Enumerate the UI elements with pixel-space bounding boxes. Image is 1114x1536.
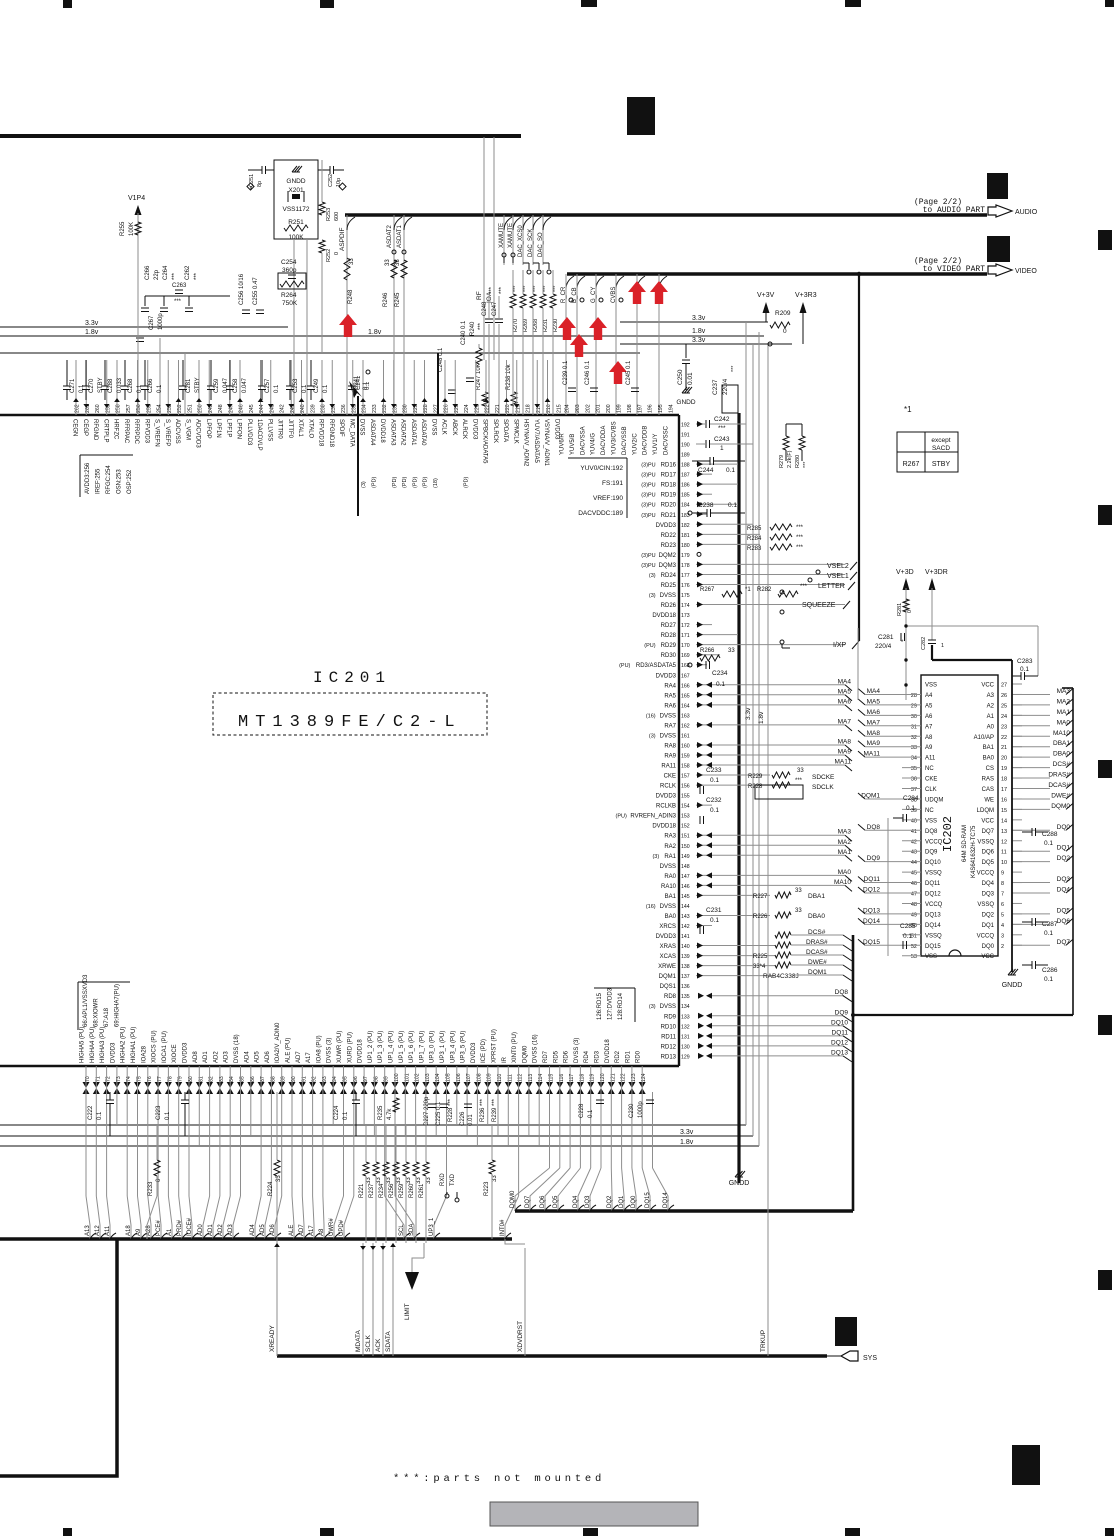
- wire DAC_SO: [542, 215, 544, 265]
- svg-text:MA4: MA4: [838, 678, 852, 685]
- svg-text:C286: C286: [1042, 967, 1058, 974]
- svg-text:XPRST (PU): XPRST (PU): [492, 1029, 498, 1063]
- svg-text:CKE: CKE: [925, 777, 937, 783]
- svg-text:C257: C257: [265, 378, 271, 393]
- svg-text:RD28: RD28: [661, 633, 677, 639]
- IC201 bottom edge: [0, 1065, 679, 1067]
- svg-text:ASDATA3: ASDATA3: [389, 419, 395, 446]
- svg-text:ASPDIF: ASPDIF: [339, 227, 346, 251]
- svg-text:129: 129: [681, 1054, 690, 1060]
- svg-text:***: ***: [796, 545, 804, 551]
- svg-text:R285: R285: [747, 526, 762, 532]
- svg-text:188: 188: [681, 463, 690, 469]
- page link marker video: [987, 236, 1010, 262]
- svg-text:244: 244: [259, 404, 265, 413]
- svg-text:1DACDVLP: 1DACDVLP: [256, 419, 262, 451]
- svg-text:C267: C267: [149, 315, 155, 330]
- svg-text:ASDAT1: ASDAT1: [397, 224, 403, 248]
- svg-text:(16): (16): [646, 713, 656, 719]
- svg-text:***: ***: [513, 285, 519, 292]
- svg-text:V+3DR: V+3DR: [925, 569, 948, 576]
- svg-text:(PD): (PD): [423, 477, 429, 488]
- wire ASPDIF: [346, 215, 348, 415]
- svg-text:DQ2: DQ2: [982, 912, 995, 918]
- svg-text:S_VREFP: S_VREFP: [164, 419, 170, 446]
- svg-text:YUV6/R: YUV6/R: [560, 433, 566, 455]
- svg-text:600: 600: [334, 212, 340, 221]
- footer gray box: [490, 1502, 698, 1526]
- wire 3.3v mid vertical: [745, 322, 747, 1125]
- svg-text:32: 32: [911, 735, 917, 741]
- crystal X201 box: [274, 160, 318, 239]
- svg-text:RD18: RD18: [661, 483, 677, 489]
- svg-text:IOA2/V_ADIN0: IOA2/V_ADIN0: [275, 1022, 281, 1063]
- wire DQ15: [641, 1092, 643, 1168]
- svg-text:YUV1/Y: YUV1/Y: [653, 434, 659, 455]
- wire 3.3v bottom rail: [0, 1135, 753, 1137]
- svg-text:143: 143: [681, 914, 690, 920]
- svg-text:200: 200: [606, 404, 612, 413]
- svg-text:36: 36: [911, 777, 917, 783]
- svg-text:33: 33: [349, 258, 355, 265]
- svg-text:XTALO: XTALO: [307, 419, 313, 439]
- svg-text:RD5: RD5: [553, 1050, 559, 1063]
- svg-text:22p: 22p: [154, 269, 160, 280]
- svg-text:RA11: RA11: [661, 764, 676, 770]
- svg-text:VSS: VSS: [925, 818, 937, 824]
- wire XAMUTE: [512, 215, 514, 265]
- svg-text:SPDATA: SPDATA: [502, 419, 508, 442]
- svg-text:(3)PU: (3)PU: [641, 473, 655, 479]
- wire trkup vertical: [767, 345, 769, 1356]
- svg-text:RD19: RD19: [661, 493, 677, 499]
- svg-text:DQM0: DQM0: [522, 1045, 528, 1063]
- wire A8: [322, 1092, 324, 1196]
- svg-text:0.1: 0.1: [710, 777, 719, 784]
- svg-text:1000p: 1000p: [638, 1101, 644, 1118]
- svg-text:AD4: AD4: [244, 1051, 250, 1063]
- wire UP3_1: [446, 1092, 448, 1196]
- svg-text:C256 10/16: C256 10/16: [239, 273, 245, 305]
- svg-text:*1: *1: [904, 405, 912, 414]
- svg-text:RA1: RA1: [664, 854, 676, 860]
- svg-text:64M SD-RAM: 64M SD-RAM: [962, 825, 968, 862]
- svg-text:A17: A17: [306, 1052, 312, 1063]
- svg-text:RFVDD18: RFVDD18: [318, 419, 324, 447]
- svg-text:SPBCK/ADATA5: SPBCK/ADATA5: [482, 419, 488, 464]
- svg-text:DVSS (16): DVSS (16): [533, 1034, 539, 1063]
- svg-text:V+3D: V+3D: [896, 569, 914, 576]
- svg-text:UP1_2 (PU): UP1_2 (PU): [368, 1031, 374, 1063]
- svg-text:X201: X201: [288, 187, 304, 194]
- svg-text:BA1: BA1: [665, 894, 677, 900]
- svg-text:RFGND: RFGND: [92, 419, 98, 441]
- wire RF: [483, 137, 485, 360]
- svg-text:SDCLK: SDCLK: [812, 784, 834, 791]
- svg-text:A8: A8: [925, 735, 933, 741]
- svg-text:0.1: 0.1: [906, 805, 915, 812]
- svg-text:DBA0: DBA0: [808, 913, 825, 920]
- svg-text:43: 43: [911, 850, 917, 856]
- wire rail y353: [0, 352, 640, 354]
- svg-text:189: 189: [681, 453, 690, 459]
- svg-text:IOA28: IOA28: [141, 1045, 147, 1063]
- svg-text:ALE (PU): ALE (PU): [286, 1038, 292, 1063]
- svg-text:RD29: RD29: [661, 643, 677, 649]
- svg-text:0.1: 0.1: [97, 1111, 103, 1120]
- svg-text:***:parts not mounted: ***:parts not mounted: [393, 1473, 605, 1485]
- svg-text:226: 226: [444, 404, 450, 413]
- wire INT0#: [518, 1092, 520, 1196]
- svg-text:R245: R245: [395, 292, 401, 307]
- svg-text:R260: R260: [409, 1183, 415, 1198]
- wire DQ bus bottom: [515, 1209, 853, 1213]
- svg-text:ABCK: ABCK: [451, 419, 457, 435]
- svg-text:(3): (3): [649, 1004, 656, 1010]
- svg-text:12: 12: [1001, 839, 1007, 845]
- svg-text:YUV4/G: YUV4/G: [591, 433, 597, 455]
- svg-text:R267: R267: [903, 461, 920, 468]
- svg-text:(PD): (PD): [464, 477, 470, 488]
- svg-text:VCC: VCC: [981, 818, 994, 824]
- svg-text:VSSQ: VSSQ: [977, 902, 994, 908]
- svg-text:DVSS (3): DVSS (3): [574, 1038, 580, 1063]
- wire AD5: [270, 1092, 272, 1196]
- svg-text:VSS: VSS: [925, 954, 937, 960]
- svg-text:0.1: 0.1: [343, 1111, 349, 1120]
- svg-text:180: 180: [681, 543, 690, 549]
- svg-text:YUV2/C: YUV2/C: [632, 433, 638, 455]
- svg-text:21: 21: [1001, 745, 1007, 751]
- svg-text:0.1: 0.1: [363, 381, 369, 390]
- svg-text:RVREFN_ADIN3: RVREFN_ADIN3: [630, 814, 676, 820]
- svg-text:0.1: 0.1: [274, 384, 280, 393]
- svg-text:37: 37: [911, 787, 917, 793]
- svg-text:67:A18: 67:A18: [104, 1007, 110, 1027]
- wire V3D to IC202: [931, 645, 933, 660]
- wire DQ bus bottom bracket: [853, 1014, 1073, 1016]
- svg-text:VCCQ: VCCQ: [977, 871, 995, 877]
- svg-text:DBA0: DBA0: [1053, 751, 1070, 758]
- svg-text:C227 220p: C227 220p: [424, 1096, 430, 1126]
- svg-text:MA0: MA0: [1057, 719, 1071, 726]
- svg-text:2.2k(F): 2.2k(F): [787, 450, 793, 468]
- svg-text:126:RD15: 126:RD15: [597, 992, 603, 1020]
- svg-text:C250: C250: [677, 369, 684, 385]
- wire sys stub: [827, 1355, 842, 1357]
- svg-text:VSEL1: VSEL1: [827, 573, 849, 580]
- svg-text:PLLVSS: PLLVSS: [266, 419, 272, 441]
- svg-text:163: 163: [681, 713, 690, 719]
- svg-text:GNDD: GNDD: [286, 178, 305, 185]
- svg-text:C259: C259: [214, 378, 220, 393]
- svg-text:3: 3: [1001, 933, 1004, 939]
- svg-text:UP1_7 (PU): UP1_7 (PU): [419, 1031, 425, 1063]
- svg-text:230: 230: [403, 404, 409, 413]
- svg-text:135: 135: [681, 994, 690, 1000]
- svg-text:R246: R246: [383, 292, 389, 307]
- svg-text:196: 196: [648, 404, 654, 413]
- svg-text:A7: A7: [925, 724, 933, 730]
- svg-text:0.033: 0.033: [117, 377, 123, 393]
- svg-text:234: 234: [362, 404, 368, 413]
- ground GNDD IC202: [1011, 660, 1013, 972]
- svg-text:R237: R237: [369, 1183, 375, 1198]
- svg-text:VSS1172: VSS1172: [283, 206, 310, 213]
- svg-text:SPDIF: SPDIF: [338, 419, 344, 437]
- svg-text:(3): (3): [361, 481, 367, 488]
- svg-text:A10/AP: A10/AP: [974, 735, 994, 741]
- svg-text:167: 167: [681, 673, 690, 679]
- svg-text:***: ***: [194, 272, 200, 280]
- svg-text:C246 0.1: C246 0.1: [585, 360, 591, 385]
- svg-text:MA10: MA10: [834, 879, 851, 886]
- svg-text:V+3R3: V+3R3: [795, 292, 817, 299]
- svg-text:CAS: CAS: [982, 787, 994, 793]
- svg-text:***: ***: [499, 286, 505, 294]
- svg-text:C241: C241: [354, 375, 360, 390]
- svg-text:RAS: RAS: [982, 777, 994, 783]
- svg-text:GNDD: GNDD: [729, 1180, 750, 1187]
- svg-text:YUV3/CVBS: YUV3/CVBS: [612, 421, 618, 455]
- svg-text:R268: R268: [533, 319, 539, 332]
- svg-text:160: 160: [681, 743, 690, 749]
- svg-text:218: 218: [526, 404, 532, 413]
- svg-text:DQ6: DQ6: [982, 850, 995, 856]
- svg-text:68:XIOWR: 68:XIOWR: [94, 998, 100, 1027]
- audio line taps: [347, 217, 355, 230]
- svg-text:S_VGM: S_VGM: [184, 419, 190, 440]
- svg-text:RD4: RD4: [584, 1050, 590, 1063]
- svg-text:RD10: RD10: [661, 1024, 677, 1030]
- svg-text:191: 191: [681, 433, 690, 439]
- svg-text:C258: C258: [233, 378, 239, 393]
- svg-text:33: 33: [385, 259, 391, 266]
- svg-text:RXD: RXD: [440, 1173, 446, 1186]
- svg-text:R266: R266: [700, 648, 715, 654]
- svg-text:DVDD3: DVDD3: [110, 1042, 116, 1063]
- svg-text:R284: R284: [747, 536, 762, 542]
- svg-text:***: ***: [796, 535, 804, 541]
- svg-text:G_CY: G_CY: [591, 287, 597, 303]
- svg-text:DVSS: DVSS: [660, 1004, 676, 1010]
- svg-text:138: 138: [681, 964, 690, 970]
- svg-text:239: 239: [310, 404, 316, 413]
- svg-text:DVSS: DVSS: [660, 713, 676, 719]
- svg-text:44: 44: [911, 860, 917, 866]
- svg-text:228: 228: [423, 404, 429, 413]
- svg-text:33: 33: [911, 745, 917, 751]
- svg-text:128:RD14: 128:RD14: [618, 992, 624, 1020]
- svg-text:1.8v: 1.8v: [368, 329, 382, 336]
- svg-text:DQ0: DQ0: [982, 944, 995, 950]
- svg-text:33: 33: [395, 259, 401, 266]
- svg-text:187: 187: [681, 473, 690, 479]
- svg-text:(3): (3): [652, 854, 659, 860]
- svg-text:SPMCLK: SPMCLK: [512, 419, 518, 444]
- svg-text:164: 164: [681, 703, 690, 709]
- svg-text:***: ***: [543, 285, 549, 292]
- svg-text:UP3_1 (PU): UP3_1 (PU): [440, 1031, 446, 1063]
- net DRAS#: [775, 942, 791, 948]
- svg-text:(PD): (PD): [371, 477, 377, 488]
- svg-text:144: 144: [681, 904, 690, 910]
- wire SDA: [394, 1092, 396, 1196]
- svg-text:DQM3: DQM3: [659, 563, 677, 569]
- svg-text:to VIDEO PART: to VIDEO PART: [923, 265, 986, 274]
- svg-text:(3): (3): [649, 593, 656, 599]
- svg-text:DQ13: DQ13: [863, 907, 880, 914]
- svg-text:192: 192: [681, 423, 690, 429]
- svg-text:RD16: RD16: [661, 463, 677, 469]
- wire thick dq bus mid: [737, 413, 740, 1183]
- wire DQ6: [569, 1092, 571, 1168]
- svg-text:HIGHA3 (PU): HIGHA3 (PU): [100, 1027, 106, 1063]
- svg-text:257: 257: [126, 404, 132, 413]
- svg-text:DQ12: DQ12: [925, 892, 941, 898]
- svg-text:0.1: 0.1: [716, 681, 725, 688]
- svg-text:30: 30: [911, 714, 917, 720]
- svg-text:XRWE: XRWE: [658, 964, 676, 970]
- svg-text:260: 260: [95, 404, 101, 413]
- svg-text:R236 ***: R236 ***: [480, 1098, 486, 1122]
- svg-text:220/4: 220/4: [722, 378, 729, 395]
- svg-text:AVDD3:256: AVDD3:256: [85, 462, 91, 494]
- svg-text:42: 42: [911, 839, 917, 845]
- svg-text:20: 20: [1001, 756, 1007, 762]
- svg-text:CKE: CKE: [664, 774, 676, 780]
- svg-text:C264: C264: [163, 265, 169, 280]
- svg-text:R270: R270: [513, 319, 519, 332]
- svg-text:DQS1: DQS1: [660, 984, 677, 990]
- svg-text:136: 136: [681, 984, 690, 990]
- svg-text:C266: C266: [148, 378, 154, 393]
- svg-text:XIOCE: XIOCE: [172, 1044, 178, 1063]
- svg-text:RD1: RD1: [625, 1050, 631, 1063]
- svg-text:C226: C226: [460, 1111, 466, 1126]
- svg-text:8p: 8p: [257, 181, 263, 187]
- svg-text:ACLK: ACLK: [441, 419, 447, 435]
- svg-text:1.8v: 1.8v: [85, 329, 99, 336]
- svg-text:34: 34: [911, 756, 917, 762]
- svg-text:C223: C223: [156, 1105, 162, 1120]
- svg-text:R253: R253: [326, 208, 332, 221]
- wire to video part: [567, 272, 987, 276]
- svg-text:258: 258: [116, 404, 122, 413]
- wire A17: [312, 1092, 314, 1196]
- svg-text:MT1389FE/C2-L: MT1389FE/C2-L: [238, 713, 462, 732]
- svg-text:33: 33: [797, 768, 804, 774]
- svg-text:159: 159: [681, 753, 690, 759]
- svg-text:DVDD3: DVDD3: [471, 419, 477, 440]
- svg-text:RD25: RD25: [661, 583, 677, 589]
- svg-text:AD6: AD6: [265, 1051, 271, 1063]
- wire 1.8v mid vertical: [758, 332, 760, 1146]
- svg-text:R231: R231: [543, 319, 549, 332]
- wire UPD#: [353, 1092, 355, 1196]
- svg-text:DQ5: DQ5: [982, 860, 995, 866]
- svg-text:RA3: RA3: [664, 834, 676, 840]
- svg-text:52: 52: [911, 944, 917, 950]
- svg-text:236: 236: [341, 404, 347, 413]
- svg-text:DVSS: DVSS: [660, 904, 676, 910]
- svg-text:0.1: 0.1: [157, 384, 163, 393]
- svg-text:ADCVDD3: ADCVDD3: [195, 419, 201, 448]
- wire 1.8v left rail: [0, 335, 764, 337]
- svg-text:6: 6: [1001, 902, 1004, 908]
- svg-text:XUWR (PU): XUWR (PU): [337, 1031, 343, 1063]
- svg-text:28: 28: [911, 693, 917, 699]
- svg-text:DQ9: DQ9: [835, 1009, 849, 1016]
- svg-text:A11: A11: [925, 756, 936, 762]
- svg-text:C239 0.1: C239 0.1: [563, 360, 569, 385]
- svg-text:233: 233: [372, 404, 378, 413]
- svg-text:(3)PU: (3)PU: [641, 553, 655, 559]
- wire IOCE#: [188, 1092, 190, 1196]
- svg-text:202: 202: [585, 404, 591, 413]
- svg-text:STBY: STBY: [98, 377, 104, 393]
- svg-text:VCCQ: VCCQ: [925, 902, 943, 908]
- svg-text:JITTF0: JITTF0: [287, 419, 293, 439]
- svg-text:204: 204: [565, 404, 571, 413]
- svg-text:DQ14: DQ14: [863, 918, 880, 925]
- svg-text:35: 35: [911, 766, 917, 772]
- svg-text:199: 199: [617, 404, 623, 413]
- svg-text:47: 47: [911, 892, 917, 898]
- svg-text:C242: C242: [714, 416, 730, 423]
- svg-text:XINT0 (PU): XINT0 (PU): [512, 1032, 518, 1063]
- svg-text:UP1_5 (PU): UP1_5 (PU): [399, 1031, 405, 1063]
- svg-text:0.1: 0.1: [728, 502, 737, 509]
- svg-text:(16): (16): [646, 904, 656, 910]
- svg-text:(PD): (PD): [402, 477, 408, 488]
- svg-text:VCC: VCC: [981, 683, 994, 689]
- svg-text:RA7: RA7: [664, 723, 676, 729]
- svg-text:R264: R264: [281, 292, 297, 299]
- svg-text:to AUDIO PART: to AUDIO PART: [923, 206, 986, 215]
- svg-text:(PD): (PD): [392, 477, 398, 488]
- svg-text:169: 169: [681, 653, 690, 659]
- svg-text:165: 165: [681, 693, 690, 699]
- svg-text:RD3: RD3: [595, 1050, 601, 1063]
- svg-text:R209: R209: [775, 310, 791, 317]
- svg-text:4.7k: 4.7k: [387, 1108, 393, 1120]
- pointer arrow MC_DATA: [349, 381, 362, 398]
- svg-text:0.1: 0.1: [710, 917, 719, 924]
- svg-text:C240 0.1: C240 0.1: [461, 320, 467, 345]
- svg-text:3.3v: 3.3v: [692, 337, 706, 344]
- svg-text:MA11: MA11: [835, 759, 852, 766]
- svg-text:179: 179: [681, 553, 690, 559]
- svg-text:0.1: 0.1: [79, 384, 85, 393]
- svg-text:146: 146: [681, 884, 690, 890]
- svg-text:R227: R227: [753, 894, 768, 900]
- svg-text:V+3V: V+3V: [757, 292, 775, 299]
- svg-text:178: 178: [681, 563, 690, 569]
- svg-text:150: 150: [681, 844, 690, 850]
- svg-text:LPFON: LPFON: [236, 419, 242, 439]
- wire DQ2: [610, 1092, 612, 1168]
- svg-text:***: ***: [553, 285, 559, 292]
- svg-text:LPF1N: LPF1N: [215, 419, 221, 438]
- svg-text:(3)PU: (3)PU: [641, 503, 655, 509]
- svg-text:53: 53: [911, 954, 917, 960]
- svg-text:166: 166: [681, 683, 690, 689]
- svg-text:10: 10: [1001, 860, 1007, 866]
- svg-text:MA5: MA5: [867, 698, 881, 705]
- svg-text:177: 177: [681, 573, 690, 579]
- svg-text:RD13: RD13: [661, 1054, 677, 1060]
